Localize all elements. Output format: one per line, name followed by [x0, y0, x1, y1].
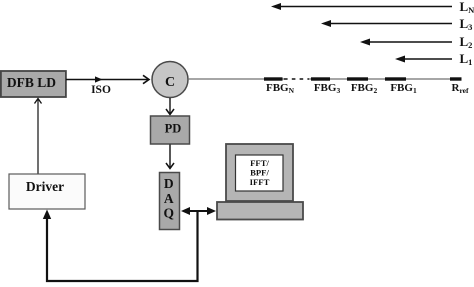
- svg-text:ISO: ISO: [91, 84, 111, 96]
- circulator C: [152, 62, 188, 98]
- svg-text:FFT/: FFT/: [250, 158, 269, 168]
- feedback wire from computer line down, left and up to driver: [43, 210, 198, 282]
- svg-text:PD: PD: [165, 122, 182, 136]
- computer screen with FFT/BPF/IFFT: [236, 155, 284, 191]
- wire PD to DAQ: [166, 145, 174, 169]
- distance arrow L_2: [360, 34, 472, 50]
- fiber line from circulator to reference reflector: [188, 78, 456, 80]
- computer monitor: [226, 144, 293, 201]
- svg-text:DFB LD: DFB LD: [7, 75, 56, 90]
- FBG_2 grating: [347, 77, 368, 80]
- computer base: [217, 202, 303, 220]
- wire driver to DFB LD: [35, 99, 42, 174]
- distance arrow L_3: [321, 16, 472, 32]
- svg-text:C: C: [165, 75, 175, 90]
- svg-text:Q: Q: [164, 206, 175, 221]
- svg-text:BPF/: BPF/: [250, 168, 269, 178]
- double arrow DAQ to computer: [181, 207, 216, 215]
- svg-text:A: A: [164, 191, 174, 206]
- svg-text:IFFT: IFFT: [250, 177, 270, 187]
- distance arrow L_1: [395, 51, 472, 67]
- distance arrow L_N: [271, 0, 474, 15]
- wire DFB LD to circulator with isolator arrow: [66, 75, 149, 83]
- svg-text:Driver: Driver: [26, 179, 64, 194]
- FBG_1 grating: [385, 77, 406, 80]
- FBG_N grating: [264, 77, 283, 80]
- reference reflector R_ref: [450, 77, 462, 80]
- wire circulator to PD: [166, 98, 174, 115]
- svg-text:D: D: [164, 176, 174, 191]
- driver box: [9, 174, 85, 209]
- photodetector PD: [151, 116, 190, 144]
- FBG_3 grating: [311, 77, 330, 80]
- DAQ box: [160, 173, 180, 230]
- laser source DFB LD: [1, 71, 66, 97]
